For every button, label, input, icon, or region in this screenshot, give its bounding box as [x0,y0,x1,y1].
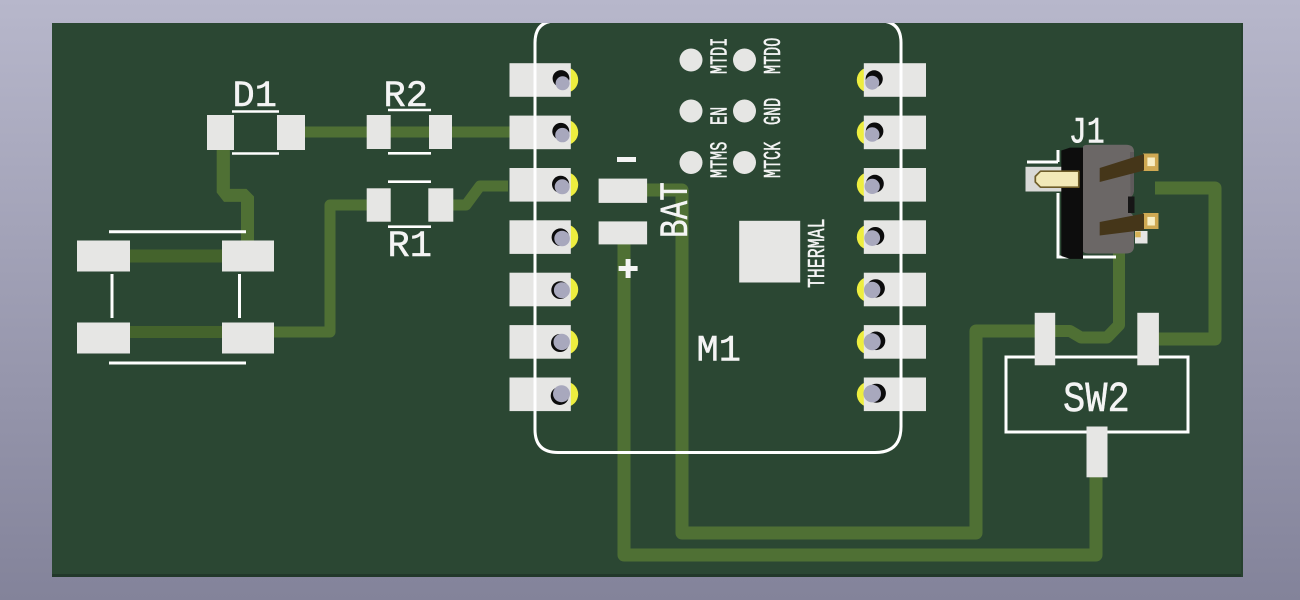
J1 pin 1 (brown) [1100,154,1144,182]
J1 body notch [1128,197,1135,214]
M1 pad L5 [510,273,579,307]
wire BAT+ trace A [624,238,1096,555]
svg-text:D1: D1 [233,76,277,118]
J1 cream pin [1035,171,1079,187]
J1 body right shade [1130,152,1134,197]
M1 pad L3 [510,168,579,202]
SW2 pad 1 [1035,313,1056,366]
diode D1 pad left [207,115,234,150]
SW1 silkscreen lines [109,232,246,363]
M1 pad R6 [857,325,926,359]
wire D1-R2-M1pad2 [290,127,510,138]
M1 left pad column [510,63,579,411]
M1 pad R5 [857,273,926,307]
svg-text:MTDO: MTDO [761,38,789,74]
test pad GND [733,100,756,123]
M1 pad L4 [510,220,579,254]
M1 pad L6 [510,325,579,359]
svg-text:R2: R2 [384,76,428,118]
test pad MTMS [680,151,703,174]
M1 right pad column [857,63,926,411]
minus sign [617,157,636,162]
resistor R1 pad right [428,188,453,221]
SW1 pad bottom-right [222,323,274,354]
SW2 silkscreen outline [1006,357,1188,432]
test pad EN [680,100,703,123]
R1 silkscreen [388,182,431,227]
M1 pad R7 [857,378,926,412]
plus sign [619,259,638,278]
D1 silkscreen [232,112,279,154]
J1 body black slab [1061,148,1083,259]
M1 pad L7 [510,378,579,412]
M1 silkscreen outline [535,21,901,453]
svg-text:BAT: BAT [653,182,699,238]
wire D1 left down to SW1 top-right pad [217,140,254,250]
J1 gold pad 1 [1143,154,1159,172]
test pad MTCK [733,151,756,174]
SW1 pad bottom-left [77,323,130,354]
M1 pad R3 [857,168,926,202]
SW1 pad top-left [77,241,130,272]
svg-text:SW2: SW2 [1063,377,1130,425]
R2 silkscreen [388,110,431,153]
wire J1 pin2 to SW2 pad1 [1050,248,1119,338]
svg-text:THERMAL: THERMAL [805,218,832,288]
J1 gold pad 2 [1143,213,1159,229]
M1 pad L2 [510,116,579,150]
BAT pad plus [599,221,648,244]
M1 pad R4 [857,220,926,254]
M1 pad L1 [510,63,579,97]
svg-text:M1: M1 [697,331,741,373]
wire R1 right to M1 pad3 [446,186,508,205]
THERMAL pad [739,221,800,283]
svg-text:MTCK: MTCK [761,141,789,178]
J1 body gray [1083,145,1134,254]
resistor R2 pad left [367,115,391,149]
test pad MTDI [680,49,703,72]
M1 silkscreen vertical lines over pads [535,44,901,425]
J1 silkscreen [1027,150,1116,257]
SW1 pad top-right [222,241,274,272]
SW2 pad 2 [1137,313,1159,366]
wire SW1 top pads stub [100,250,250,263]
svg-text:GND: GND [761,98,789,125]
wire SW1 bottom pads stub [100,326,262,338]
svg-text:MTMS: MTMS [707,142,735,178]
diode D1 pad right [277,115,305,150]
resistor R1 pad left [367,188,391,221]
svg-text:EN: EN [707,107,735,125]
wire J1 pin1 to SW2 pad2 [1152,188,1215,339]
svg-text:R1: R1 [388,226,432,268]
J1 pad small bottom-right [1135,231,1148,244]
BAT pad minus [599,179,648,203]
wire R1 left to SW1 bottom pads [260,205,382,332]
test pad MTDO [733,49,756,72]
svg-text:MTDI: MTDI [707,38,735,74]
M1 pad R2 [857,116,926,150]
M1 pad R1 [857,63,926,97]
wire BAT- trace B [640,190,1042,533]
SW2 pad 3 [1087,427,1108,478]
resistor R2 pad right [429,115,452,149]
J1 left pad [1026,167,1062,192]
J1 pin 2 (brown) [1100,214,1144,236]
